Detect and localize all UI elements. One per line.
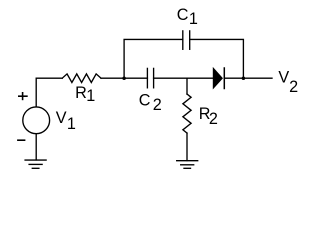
node dot B (242, 76, 246, 80)
svg-text:C: C (177, 6, 189, 24)
ground under V1 (25, 160, 46, 168)
wire diode to V2 output (224, 77, 272, 79)
node dot A (122, 76, 126, 80)
wire V1 bottom to ground (35, 134, 37, 160)
resistor R1 (62, 74, 101, 83)
wire R2 to ground (186, 133, 188, 160)
capacitor C2 (147, 68, 153, 87)
svg-text:1: 1 (67, 115, 76, 133)
wire C1 to right riser (190, 39, 244, 78)
svg-text:1: 1 (86, 87, 95, 105)
svg-text:R: R (75, 84, 87, 102)
wire V1 top to main line corner (36, 78, 62, 106)
ground under R2 (177, 161, 198, 169)
resistor R2 (183, 94, 191, 133)
label V1 (56, 109, 76, 133)
svg-text:2: 2 (289, 78, 298, 96)
svg-text:2: 2 (209, 110, 218, 128)
label V2 (278, 68, 298, 96)
svg-text:V: V (278, 68, 289, 86)
label C2 (139, 91, 162, 114)
label R1 (75, 84, 95, 105)
capacitor C1 (183, 31, 190, 49)
wire C2 to diode (154, 77, 214, 79)
svg-text:C: C (139, 91, 151, 109)
svg-text:2: 2 (153, 96, 162, 114)
svg-text:1: 1 (189, 10, 198, 28)
label C1 (177, 6, 198, 28)
voltage source V1 (23, 107, 50, 134)
plus sign of V1 (18, 92, 28, 100)
wire R1 to C2 (101, 77, 147, 79)
svg-text:V: V (56, 109, 67, 127)
wire riser left of C1 branch (124, 39, 183, 78)
minus sign of V1 (17, 139, 25, 141)
label R2 (199, 105, 218, 128)
diode cathode bar (223, 68, 225, 89)
diode D triangle (213, 68, 222, 88)
wire R2 branch down (186, 78, 188, 94)
